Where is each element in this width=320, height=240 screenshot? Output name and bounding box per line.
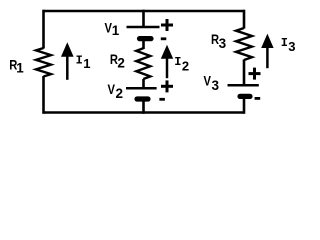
- wire middle stub a: [142, 41, 145, 50]
- wire right lower stub: [243, 99, 246, 114]
- label R3: [211, 31, 227, 51]
- resistor R3: [236, 28, 252, 60]
- wire right mid stub: [243, 60, 246, 85]
- battery V2 minus sign: [159, 98, 165, 101]
- battery V1 minus sign: [161, 37, 167, 40]
- svg-text:3: 3: [288, 39, 295, 54]
- wire left upper: [42, 10, 45, 49]
- label I1: [76, 53, 91, 71]
- battery V2 negative plate: [137, 96, 148, 101]
- battery V3 positive plate: [228, 84, 259, 87]
- wire left lower: [42, 76, 45, 114]
- battery V2 positive plate: [126, 87, 157, 90]
- label V3: [204, 72, 220, 93]
- wire top: [44, 10, 245, 13]
- battery V1 negative plate: [140, 36, 152, 41]
- resistor R2: [136, 48, 150, 79]
- svg-text:I: I: [76, 53, 83, 67]
- svg-text:2: 2: [116, 86, 124, 101]
- label R2: [110, 51, 125, 71]
- svg-text:I: I: [174, 55, 181, 69]
- resistor R1: [36, 48, 51, 77]
- svg-text:1: 1: [83, 56, 90, 71]
- label V1: [105, 19, 120, 38]
- svg-text:1: 1: [16, 61, 24, 76]
- svg-text:2: 2: [117, 56, 125, 71]
- battery V1 positive plate: [127, 26, 160, 29]
- label I3: [281, 36, 296, 54]
- current arrow I1: [61, 42, 74, 80]
- battery V2 plus sign: [161, 80, 173, 92]
- svg-text:2: 2: [182, 58, 189, 73]
- current arrow I2: [161, 45, 173, 78]
- svg-text:1: 1: [112, 23, 120, 38]
- wire middle lower stub: [142, 102, 145, 114]
- label V2: [108, 81, 124, 101]
- svg-text:3: 3: [212, 78, 220, 93]
- battery V3 minus sign: [255, 97, 261, 100]
- wire middle upper stub: [142, 10, 145, 27]
- wire bottom: [44, 111, 245, 114]
- svg-text:V: V: [204, 72, 212, 89]
- current arrow I3: [261, 34, 273, 69]
- battery V3 negative plate: [240, 94, 250, 99]
- svg-text:I: I: [281, 36, 288, 50]
- wire right upper: [243, 10, 246, 29]
- label R1: [9, 56, 24, 75]
- svg-text:3: 3: [219, 36, 227, 51]
- label I2: [174, 55, 189, 73]
- battery V1 plus sign: [161, 19, 173, 31]
- svg-text:V: V: [108, 81, 116, 98]
- battery V3 plus sign: [249, 68, 261, 80]
- wire middle stub b: [142, 79, 145, 88]
